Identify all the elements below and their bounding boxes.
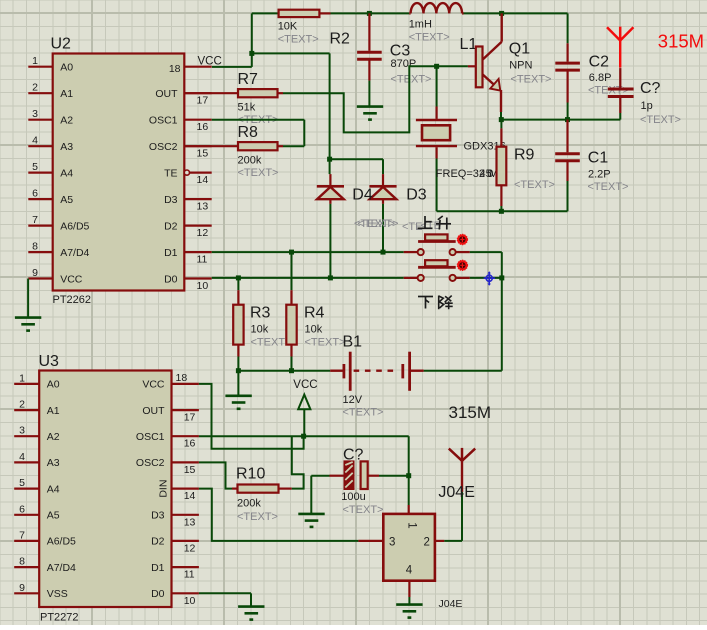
wire U3 pin18 VCC zigzag to supply node (199, 384, 304, 449)
node emitter junction (499, 117, 504, 122)
svg-text:9: 9 (19, 582, 25, 594)
svg-text:<TEXT>: <TEXT> (358, 218, 399, 230)
svg-text:15: 15 (184, 464, 196, 476)
svg-text:4: 4 (406, 565, 413, 577)
U3 pin 4 (A3) (14, 461, 39, 463)
svg-text:U2: U2 (51, 36, 72, 53)
wire R10 right loop back to OSC1 rail (279, 488, 292, 490)
svg-text:<TEXT>: <TEXT> (278, 34, 319, 46)
crystal X1 GDX316 (436, 66, 438, 106)
power terminal VCC arrow (298, 395, 310, 410)
svg-text:315M: 315M (658, 30, 704, 51)
node Q1 collector junction (499, 11, 504, 16)
svg-text:A7/D4: A7/D4 (47, 562, 76, 574)
svg-text:<TE: <TE (402, 221, 422, 233)
wire U3 pin14 DIN to J04E pin3 (199, 489, 359, 541)
wire crystal bottom net to C1 bottom (437, 210, 568, 212)
svg-text:11: 11 (184, 569, 195, 581)
U2 pin 11 (D1) (184, 251, 211, 253)
node R3 bottom junction (236, 368, 241, 373)
svg-text:2.2P: 2.2P (588, 169, 611, 181)
wire U2 OSC1 pin16 to R8 right loop (212, 119, 305, 121)
inductor L1 coils 1mH (409, 12, 410, 14)
wire R7 right loop to Q1 base net (278, 92, 284, 94)
U2 pin 4 (A3) (28, 145, 52, 147)
svg-text:OSC1: OSC1 (136, 431, 165, 443)
svg-text:A7/D4: A7/D4 (60, 247, 89, 259)
ground for C? left (298, 513, 324, 516)
wire VCC riser up to R2 left lead (251, 13, 253, 53)
wire C? left to ground (311, 475, 329, 477)
svg-text:1: 1 (406, 522, 418, 528)
U2 pin 15 (OSC2) (184, 145, 211, 147)
svg-text:17: 17 (184, 412, 196, 424)
svg-text:A6/D5: A6/D5 (47, 536, 76, 548)
svg-text:13: 13 (197, 201, 209, 213)
wire base node to Q1 base (437, 65, 468, 67)
U3 pin 14 (DIN) (172, 488, 199, 490)
svg-text:A0: A0 (47, 379, 60, 391)
node R9 bottom junction (499, 209, 504, 214)
svg-text:9: 9 (32, 267, 38, 279)
J04E pin4 lead to ground (408, 581, 410, 597)
U3 pin 1 (A0) (14, 383, 39, 385)
svg-text:7: 7 (32, 214, 38, 226)
svg-text:DIN: DIN (158, 480, 170, 498)
svg-text:18: 18 (176, 372, 188, 384)
U2 pin 2 (A1) (28, 92, 52, 94)
svg-text:Q1: Q1 (509, 41, 530, 58)
U2 pin 5 (A4) (28, 172, 52, 174)
U3 pin 8 (A7/D4) (14, 566, 39, 568)
svg-text:5: 5 (19, 477, 25, 489)
U3 pin 13 (D3) (172, 514, 199, 516)
ground for J04E pin4 (396, 603, 422, 606)
node VCC junction at riser (249, 51, 254, 56)
svg-text:D0: D0 (151, 588, 165, 600)
svg-text:870P: 870P (391, 58, 417, 70)
svg-text:D2: D2 (151, 536, 165, 548)
U2 pin 17 (OUT) (184, 92, 211, 94)
U3 pin 5 (A4) (14, 488, 39, 490)
svg-text:VCC: VCC (198, 56, 222, 68)
node D4/D3 cathode junction (327, 157, 332, 162)
U2 pin 18 (VCC supply) (184, 66, 211, 68)
svg-text:12V: 12V (343, 394, 363, 406)
node R3 top junction (236, 275, 241, 280)
svg-text:J04E: J04E (438, 484, 474, 501)
svg-text:12: 12 (184, 542, 196, 554)
U2 pin 16 (OSC1) (184, 119, 211, 121)
resistor R7 51k body (184, 92, 238, 94)
resistor R3 10k body (237, 278, 239, 290)
svg-text:OUT: OUT (142, 405, 165, 417)
svg-text:PT2272: PT2272 (40, 612, 79, 624)
J04E pin2 lead to antenna (435, 540, 444, 542)
U3 pin 10 (D0) (172, 592, 199, 594)
resistor R8 200k body (184, 145, 238, 147)
svg-text:<TEXT>: <TEXT> (588, 181, 629, 193)
battery B1 12V (330, 370, 344, 372)
svg-text:3: 3 (389, 537, 395, 549)
svg-text:A3: A3 (60, 141, 73, 153)
wire VCC net: U2 pin18 to vertical riser (212, 66, 252, 68)
svg-text:10k: 10k (251, 324, 269, 336)
svg-text:<TEXT>: <TEXT> (238, 167, 279, 179)
svg-text:OUT: OUT (155, 88, 178, 100)
svg-text:14: 14 (197, 174, 209, 186)
svg-text:VCC: VCC (142, 379, 165, 391)
svg-text:B1: B1 (343, 334, 363, 351)
svg-text:200k: 200k (237, 498, 261, 510)
svg-text:C?: C? (640, 80, 661, 97)
svg-text:A5: A5 (47, 510, 60, 522)
node R4 top junction (289, 250, 294, 255)
svg-text:D0: D0 (164, 273, 178, 285)
wire C3 node to L1 (369, 12, 409, 14)
svg-text:<TEXT>: <TEXT> (237, 511, 278, 523)
svg-text:D2: D2 (164, 220, 178, 232)
svg-text:450M: 450M (480, 168, 499, 180)
svg-text:12: 12 (197, 227, 209, 239)
svg-text:D3: D3 (406, 187, 427, 204)
svg-text:R7: R7 (238, 71, 259, 88)
svg-text:A5: A5 (60, 194, 73, 206)
U2 pin 13 (D3) (184, 198, 211, 200)
svg-text:J04E: J04E (439, 598, 463, 610)
svg-text:1: 1 (32, 55, 38, 67)
svg-text:8: 8 (32, 241, 38, 253)
svg-text:R3: R3 (250, 305, 271, 322)
svg-text:51k: 51k (238, 102, 256, 114)
node SW2 right junction (499, 275, 504, 280)
svg-text:15: 15 (197, 148, 209, 160)
svg-text:A1: A1 (47, 405, 60, 417)
svg-text:R2: R2 (330, 31, 351, 48)
U2 pin 14 (TE) inverted (184, 170, 189, 175)
svg-text:<TEXT>: <TEXT> (640, 114, 681, 126)
svg-text:10: 10 (184, 595, 196, 607)
svg-text:6: 6 (19, 503, 25, 515)
origin marker crosshair (486, 275, 492, 281)
svg-text:D4: D4 (352, 187, 373, 204)
wire D4 cathode to D3 cathode (330, 158, 383, 160)
svg-text:<TEXT>: <TEXT> (305, 337, 346, 349)
svg-text:OSC2: OSC2 (136, 457, 165, 469)
svg-text:C1: C1 (588, 150, 609, 167)
svg-text:200k: 200k (238, 155, 262, 167)
IC U2 PT2262 body (53, 54, 185, 291)
resistor R9 body (500, 120, 502, 129)
svg-text:6: 6 (32, 188, 38, 200)
wire Q1 emitter down to emitter node (500, 90, 502, 112)
diode D3 (382, 174, 384, 185)
wire riser down to battery plus (501, 278, 503, 371)
svg-text:OSC1: OSC1 (149, 115, 178, 127)
svg-text:A4: A4 (47, 483, 60, 495)
svg-text:A3: A3 (47, 457, 60, 469)
svg-text:100u: 100u (341, 491, 365, 503)
resistor R10 200k body (238, 485, 279, 493)
U3 pin 12 (D2) (172, 540, 199, 542)
wire SW1 right terminal to battery riser (470, 251, 502, 253)
wire collector node to C2 top (502, 12, 568, 14)
svg-text:C3: C3 (390, 43, 411, 60)
wire ground rail under R3/R4 (238, 370, 330, 372)
IC U3 PT2272 body (39, 371, 171, 608)
wire supply rail to C?/J04E pin1 (408, 436, 410, 476)
node supply junction (VCC arrow) (301, 434, 306, 439)
wire C2 node to C? bottom (568, 119, 621, 121)
U3 pin 7 (A6/D5) (14, 540, 39, 542)
svg-text:OSC2: OSC2 (149, 141, 178, 153)
svg-text:R10: R10 (236, 466, 265, 483)
svg-text:1mH: 1mH (409, 19, 432, 31)
svg-text:3: 3 (32, 108, 38, 120)
U3 pin 11 (D1) (172, 566, 199, 568)
svg-text:D3: D3 (164, 194, 178, 206)
svg-text:14: 14 (184, 490, 196, 502)
U3 pin 18 (VCC) (172, 383, 199, 385)
U2 pin 12 (D2) (184, 225, 211, 227)
wire SW2 right terminal to riser (470, 277, 502, 279)
ground for U3 pin10 (238, 605, 264, 608)
wire down to J04E pin1 (408, 476, 410, 505)
svg-text:D3: D3 (151, 510, 165, 522)
svg-text:D1: D1 (151, 562, 165, 574)
antenna TX (607, 27, 620, 40)
capacitor C? 100u electrolytic (330, 475, 345, 477)
svg-text:A2: A2 (47, 431, 60, 443)
button SW2 label (Chinese 'down') (418, 296, 433, 298)
wire L1 to Q1 collector node (464, 12, 502, 14)
svg-text:1p: 1p (641, 100, 653, 112)
ground for C3 (357, 105, 383, 108)
svg-text:<TEXT>: <TEXT> (409, 32, 450, 44)
svg-text:6.8P: 6.8P (589, 72, 612, 84)
diode D4 (329, 174, 331, 185)
svg-text:C2: C2 (589, 54, 610, 71)
svg-text:5: 5 (32, 161, 38, 173)
capacitor C3 870P (368, 13, 370, 50)
wire U3 pin16 OSC1 rail (199, 435, 409, 437)
wire emitter node to C2 bottom node (501, 119, 567, 121)
svg-text:R8: R8 (238, 124, 259, 141)
capacitor C2 6.8P (566, 43, 568, 61)
svg-text:10K: 10K (278, 21, 298, 33)
wire U2 D0 pin10 row to button SW2 (212, 277, 404, 279)
svg-text:315M: 315M (449, 403, 492, 422)
U3 pin 9 (VSS) (14, 592, 39, 594)
resistor R2 10K body (279, 10, 320, 17)
node R4 bottom junction (289, 368, 294, 373)
node D3 anode junction (381, 250, 386, 255)
ground for divider rail (237, 371, 239, 396)
node D4 anode junction (328, 275, 333, 280)
wire U3 pin15 OSC2 to R10 left (199, 462, 232, 488)
U2 pin 7 (A6/D5) (28, 225, 52, 227)
node crystal top junction (434, 64, 439, 69)
svg-text:FREQ=32: FREQ=32 (436, 168, 485, 180)
U2 pin 3 (A2) (28, 119, 52, 121)
U3 pin 16 (OSC1) (172, 435, 199, 437)
svg-text:NPN: NPN (509, 60, 532, 72)
svg-text:18: 18 (169, 63, 181, 75)
svg-text:<TEXT>: <TEXT> (511, 74, 552, 86)
transistor Q1 NPN (501, 13, 503, 41)
svg-text:<TEXT>: <TEXT> (514, 179, 555, 191)
wire D4 cathode stub (329, 159, 331, 174)
resistor R4 10k body (291, 252, 293, 290)
svg-text:11: 11 (197, 254, 208, 266)
svg-text:<TEXT>: <TEXT> (343, 504, 384, 516)
ground for U2 pin9 (15, 316, 41, 319)
U2 pin 8 (A7/D4) (28, 251, 52, 253)
svg-text:13: 13 (184, 516, 196, 528)
svg-text:A6/D5: A6/D5 (60, 220, 89, 232)
svg-text:3: 3 (19, 425, 25, 437)
antenna RX (449, 449, 462, 461)
svg-text:10: 10 (197, 280, 209, 292)
svg-text:<TEXT>: <TEXT> (343, 407, 384, 419)
svg-text:2: 2 (424, 537, 430, 549)
push button SW1 (up) (404, 251, 418, 253)
svg-text:<TEXT>: <TEXT> (391, 74, 432, 86)
svg-text:U3: U3 (39, 353, 60, 370)
svg-text:4: 4 (19, 451, 25, 463)
svg-text:16: 16 (184, 438, 196, 450)
svg-text:VCC: VCC (293, 379, 317, 391)
svg-text:A2: A2 (60, 115, 73, 127)
node C3 top junction (367, 11, 372, 16)
svg-text:2: 2 (32, 82, 38, 94)
svg-text:C?: C? (343, 447, 364, 464)
U2 pin 1 (A0) (28, 66, 52, 68)
svg-text:VSS: VSS (47, 588, 68, 600)
svg-text:A1: A1 (60, 88, 73, 100)
svg-text:10k: 10k (305, 324, 323, 336)
capacitor C? 1p coupling (619, 68, 621, 87)
U3 pin 15 (OSC2) (172, 461, 199, 463)
svg-text:2: 2 (19, 399, 25, 411)
svg-text:TE: TE (164, 167, 177, 179)
svg-text:17: 17 (197, 95, 209, 107)
wire U3 pin10 D0 to ground (199, 592, 251, 594)
push button SW2 (down) (404, 277, 418, 279)
R2 right lead and wire to C3 node (319, 12, 330, 14)
U2 pin 6 (A5) (28, 198, 52, 200)
U2 pin 10 (D0) (184, 277, 211, 279)
svg-text:R9: R9 (514, 147, 535, 164)
U2 VSS ground wire from pin9 (27, 279, 29, 318)
node C? right junction (406, 473, 411, 478)
svg-text:4: 4 (32, 135, 38, 147)
svg-text:8: 8 (19, 556, 25, 568)
U3 pin 6 (A5) (14, 514, 39, 516)
U3 pin 3 (A2) (14, 435, 39, 437)
svg-text:1: 1 (19, 372, 25, 384)
J04E pin3 lead (358, 540, 383, 542)
U3 pin 2 (A1) (14, 409, 39, 411)
svg-text:7: 7 (19, 529, 25, 541)
node C2 bottom junction (565, 117, 570, 122)
capacitor C1 2.2P (555, 152, 580, 155)
U3 pin 17 (OUT) (172, 409, 199, 411)
svg-text:R4: R4 (304, 305, 325, 322)
wire VCC branch to diode cathodes (252, 52, 330, 54)
svg-text:D1: D1 (164, 247, 178, 259)
svg-text:A0: A0 (60, 62, 73, 74)
svg-text:A4: A4 (60, 167, 73, 179)
svg-text:VCC: VCC (60, 273, 83, 285)
U2 pin 9 (VCC) (28, 277, 52, 279)
connector J04E receiver module body (383, 514, 435, 581)
svg-text:PT2262: PT2262 (53, 294, 92, 306)
svg-text:16: 16 (197, 121, 209, 133)
wire U2 D1 pin11 row to button SW1 (212, 251, 404, 253)
